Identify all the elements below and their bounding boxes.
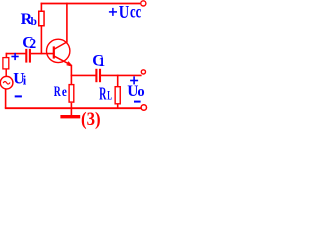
wire source to bottom rail xyxy=(5,89,7,109)
wire input left drop xyxy=(5,53,7,58)
wire Re branch bottom xyxy=(70,103,72,108)
terminal output bottom (open circle) xyxy=(141,105,146,110)
label C1 xyxy=(92,53,105,70)
terminal Ucc (open circle) xyxy=(141,1,146,6)
ground stub xyxy=(70,109,72,116)
resistor RL xyxy=(115,87,120,104)
label - input xyxy=(15,95,22,97)
label Re xyxy=(54,83,67,100)
resistor Re xyxy=(69,85,74,103)
transistor base bar xyxy=(53,46,55,58)
ground bar xyxy=(60,115,80,118)
wire RL branch top xyxy=(117,75,119,87)
svg-text:o: o xyxy=(137,84,144,100)
capacitor C1 xyxy=(95,69,97,82)
capacitor C2 xyxy=(25,49,27,63)
wire emitter vertical xyxy=(70,65,72,76)
svg-text:b: b xyxy=(31,16,37,28)
terminal output top (open circle) xyxy=(141,70,145,74)
wire C2 to base xyxy=(31,53,54,55)
label + input xyxy=(11,53,18,60)
svg-text:R: R xyxy=(99,83,107,103)
wire bottom rail xyxy=(5,107,141,109)
wire input to C2 left xyxy=(6,53,26,55)
source Ui (circle) xyxy=(0,76,13,89)
transistor emitter diagonal xyxy=(54,56,71,65)
svg-text:2: 2 xyxy=(29,36,36,51)
source terminal box xyxy=(3,58,9,69)
label Uo xyxy=(127,83,144,100)
svg-text:(3): (3) xyxy=(81,109,101,130)
svg-text:cc: cc xyxy=(130,2,141,22)
label Rb xyxy=(21,11,37,28)
label Ui xyxy=(13,70,27,87)
wire box to source circle xyxy=(5,69,7,77)
transistor collector diagonal xyxy=(54,42,67,49)
label RL xyxy=(99,83,112,103)
wire top rail +Ucc xyxy=(41,3,140,5)
svg-text:R: R xyxy=(54,83,62,100)
svg-text:U: U xyxy=(119,2,130,22)
resistor Rb xyxy=(39,11,44,26)
wire Rb branch vertical xyxy=(40,3,42,55)
wire RL branch bottom xyxy=(117,105,119,109)
label C2 xyxy=(22,35,36,52)
wire collector vertical xyxy=(66,3,68,43)
sine symbol xyxy=(3,82,10,85)
svg-text:e: e xyxy=(62,85,67,100)
wire C1 to output xyxy=(101,74,142,76)
label + output xyxy=(130,76,138,84)
svg-text:i: i xyxy=(23,73,27,87)
label + Ucc xyxy=(109,2,141,23)
wire emitter to C1 xyxy=(71,74,96,76)
emitter arrow xyxy=(67,62,72,66)
svg-text:1: 1 xyxy=(99,54,106,69)
label - output xyxy=(134,101,141,103)
transistor Q circle xyxy=(47,39,70,62)
wire Re branch top xyxy=(70,75,72,84)
svg-text:L: L xyxy=(107,87,112,102)
